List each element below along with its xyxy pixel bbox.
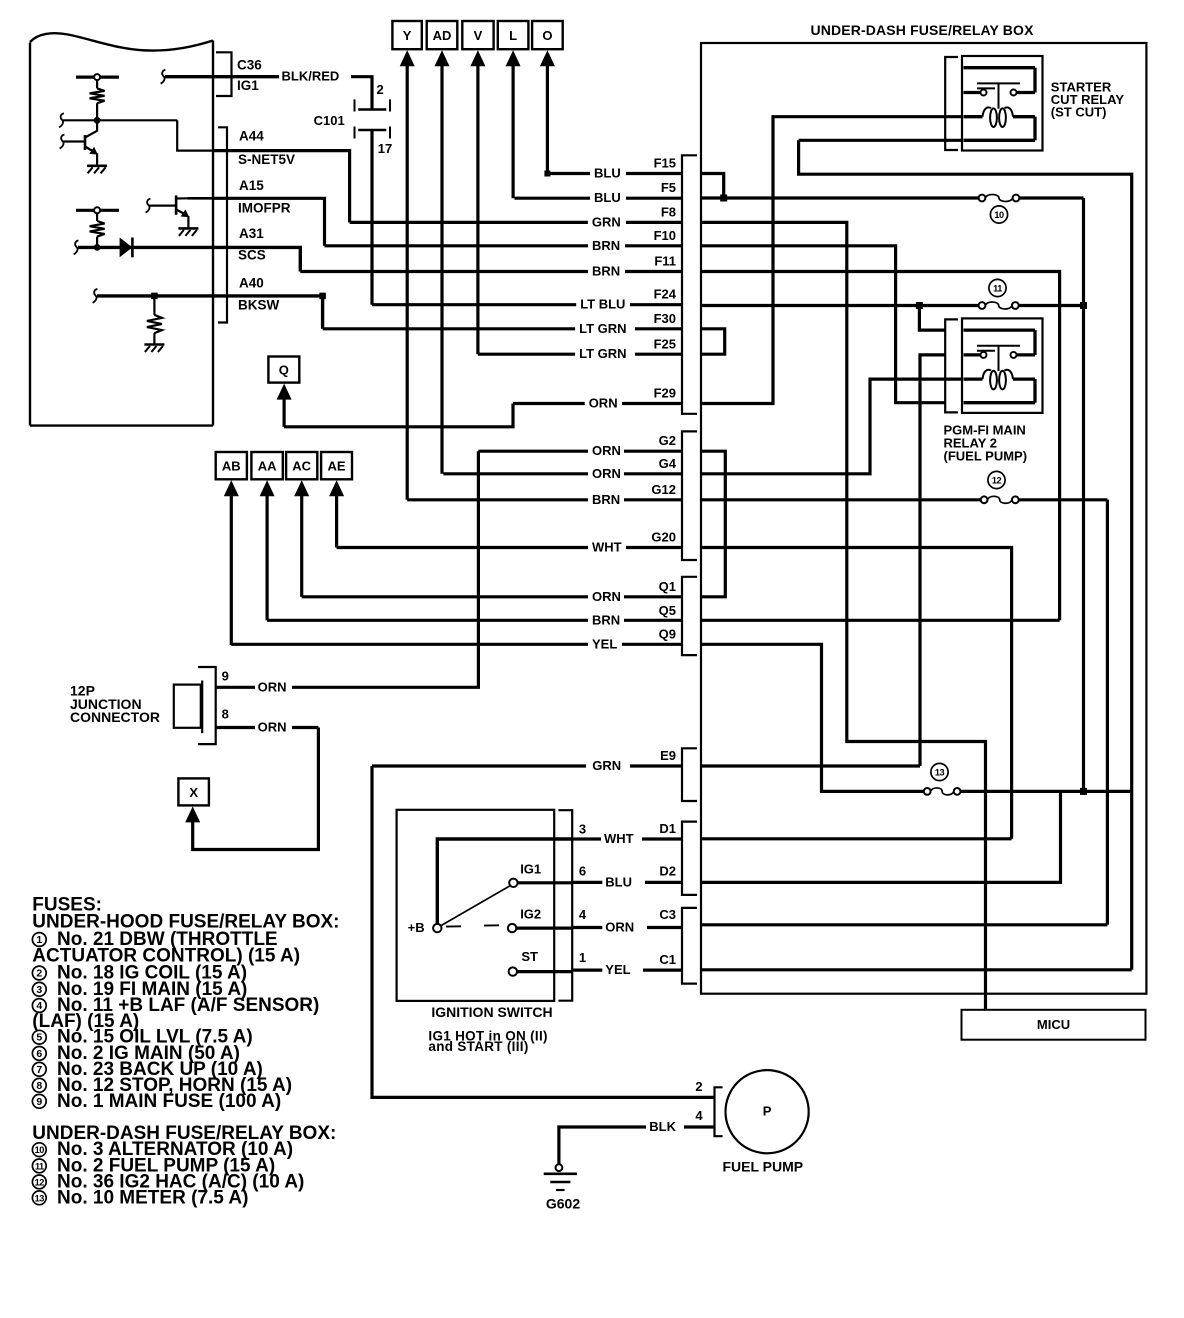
svg-text:3: 3 [579, 822, 586, 837]
svg-text:A15: A15 [239, 178, 264, 193]
svg-text:CONNECTOR: CONNECTOR [70, 709, 160, 725]
svg-text:ORN: ORN [592, 443, 621, 458]
svg-text:LT GRN: LT GRN [579, 346, 626, 361]
svg-text:Q: Q [279, 363, 289, 378]
svg-text:BLK: BLK [649, 1119, 676, 1134]
svg-text:C3: C3 [659, 907, 676, 922]
svg-text:F29: F29 [654, 386, 676, 401]
svg-text:O: O [542, 28, 552, 43]
svg-text:YEL: YEL [592, 636, 617, 651]
svg-text:WHT: WHT [592, 540, 622, 555]
svg-text:G20: G20 [651, 530, 676, 545]
svg-text:X: X [189, 785, 198, 800]
svg-text:F5: F5 [661, 180, 676, 195]
svg-text:+B: +B [408, 920, 425, 935]
svg-text:AC: AC [292, 459, 311, 474]
svg-text:P: P [763, 1104, 772, 1119]
svg-text:No. 1 MAIN FUSE (100 A): No. 1 MAIN FUSE (100 A) [57, 1091, 281, 1112]
svg-text:12: 12 [35, 1177, 45, 1187]
svg-text:AE: AE [328, 459, 346, 474]
svg-text:E9: E9 [660, 748, 676, 763]
svg-text:ORN: ORN [605, 920, 634, 935]
svg-text:C1: C1 [659, 952, 676, 967]
svg-text:11: 11 [993, 284, 1002, 294]
svg-text:No. 10 METER (7.5 A): No. 10 METER (7.5 A) [57, 1187, 248, 1208]
svg-text:LT GRN: LT GRN [579, 321, 626, 336]
svg-text:BKSW: BKSW [238, 298, 280, 313]
svg-text:S-NET5V: S-NET5V [238, 152, 295, 167]
svg-text:IMOFPR: IMOFPR [238, 201, 291, 216]
svg-text:BLU: BLU [594, 190, 621, 205]
svg-text:BLU: BLU [594, 166, 621, 181]
svg-text:LT BLU: LT BLU [580, 297, 625, 312]
svg-text:F25: F25 [654, 337, 676, 352]
svg-text:AB: AB [222, 459, 241, 474]
svg-text:6: 6 [579, 864, 586, 879]
svg-text:G12: G12 [651, 482, 676, 497]
svg-text:3: 3 [36, 984, 42, 996]
svg-text:17: 17 [378, 141, 392, 156]
svg-text:BRN: BRN [592, 264, 620, 279]
svg-text:Q1: Q1 [659, 579, 676, 594]
svg-text:A44: A44 [239, 129, 264, 144]
svg-text:(ST CUT): (ST CUT) [1051, 105, 1107, 120]
svg-text:C101: C101 [314, 113, 345, 128]
svg-text:11: 11 [35, 1161, 44, 1171]
svg-text:9: 9 [222, 668, 229, 683]
svg-text:2: 2 [695, 1079, 702, 1094]
svg-text:9: 9 [36, 1096, 42, 1108]
svg-text:6: 6 [36, 1048, 42, 1060]
svg-text:BRN: BRN [592, 492, 620, 507]
svg-text:10: 10 [994, 210, 1004, 220]
svg-text:13: 13 [35, 1193, 45, 1203]
svg-text:1: 1 [36, 934, 42, 946]
svg-text:8: 8 [36, 1080, 42, 1092]
svg-text:L: L [509, 28, 517, 43]
svg-text:ORN: ORN [258, 679, 287, 694]
svg-text:G602: G602 [546, 1196, 580, 1212]
svg-text:G4: G4 [659, 456, 677, 471]
svg-text:BRN: BRN [592, 612, 620, 627]
svg-text:G2: G2 [659, 433, 676, 448]
svg-text:A31: A31 [239, 226, 264, 241]
svg-text:D2: D2 [659, 864, 676, 879]
svg-text:F15: F15 [654, 156, 676, 171]
svg-text:IG1: IG1 [520, 862, 541, 877]
svg-text:Q9: Q9 [659, 627, 676, 642]
svg-text:F11: F11 [654, 254, 676, 269]
svg-text:4: 4 [579, 907, 587, 922]
svg-text:GRN: GRN [592, 214, 621, 229]
svg-text:F24: F24 [654, 287, 677, 302]
svg-text:IG2: IG2 [520, 906, 541, 921]
svg-text:IG1: IG1 [237, 78, 259, 93]
svg-text:ST: ST [521, 949, 538, 964]
svg-text:12: 12 [992, 476, 1002, 486]
svg-text:(FUEL PUMP): (FUEL PUMP) [944, 449, 1028, 464]
svg-text:C36: C36 [237, 58, 262, 73]
svg-text:10: 10 [35, 1145, 45, 1155]
svg-text:13: 13 [935, 768, 945, 778]
svg-text:ORN: ORN [258, 720, 287, 735]
svg-text:BLU: BLU [605, 874, 632, 889]
svg-text:BLK/RED: BLK/RED [282, 69, 340, 84]
svg-text:A40: A40 [239, 275, 264, 290]
svg-text:GRN: GRN [592, 758, 621, 773]
svg-text:AD: AD [433, 28, 452, 43]
svg-text:BRN: BRN [592, 238, 620, 253]
svg-text:7: 7 [36, 1064, 42, 1076]
svg-text:ORN: ORN [592, 589, 621, 604]
svg-text:MICU: MICU [1037, 1017, 1070, 1032]
svg-text:and START (III): and START (III) [428, 1039, 528, 1054]
svg-text:V: V [474, 28, 483, 43]
svg-text:UNDER-DASH FUSE/RELAY BOX: UNDER-DASH FUSE/RELAY BOX [810, 22, 1034, 38]
svg-text:Q5: Q5 [659, 603, 676, 618]
svg-text:ORN: ORN [592, 466, 621, 481]
svg-text:D1: D1 [659, 821, 676, 836]
svg-text:5: 5 [36, 1032, 42, 1044]
svg-text:ORN: ORN [589, 396, 618, 411]
svg-text:AA: AA [258, 459, 277, 474]
svg-text:F10: F10 [654, 228, 676, 243]
svg-text:2: 2 [36, 968, 42, 980]
svg-text:8: 8 [222, 706, 229, 721]
svg-text:WHT: WHT [604, 831, 634, 846]
svg-text:IGNITION SWITCH: IGNITION SWITCH [431, 1004, 552, 1020]
svg-text:F30: F30 [654, 311, 676, 326]
svg-text:4: 4 [695, 1108, 703, 1123]
svg-text:YEL: YEL [605, 962, 630, 977]
svg-text:SCS: SCS [238, 247, 266, 262]
svg-text:1: 1 [579, 950, 586, 965]
svg-text:Y: Y [403, 28, 412, 43]
svg-text:FUEL PUMP: FUEL PUMP [722, 1158, 803, 1174]
svg-text:2: 2 [377, 82, 384, 97]
svg-text:F8: F8 [661, 205, 676, 220]
